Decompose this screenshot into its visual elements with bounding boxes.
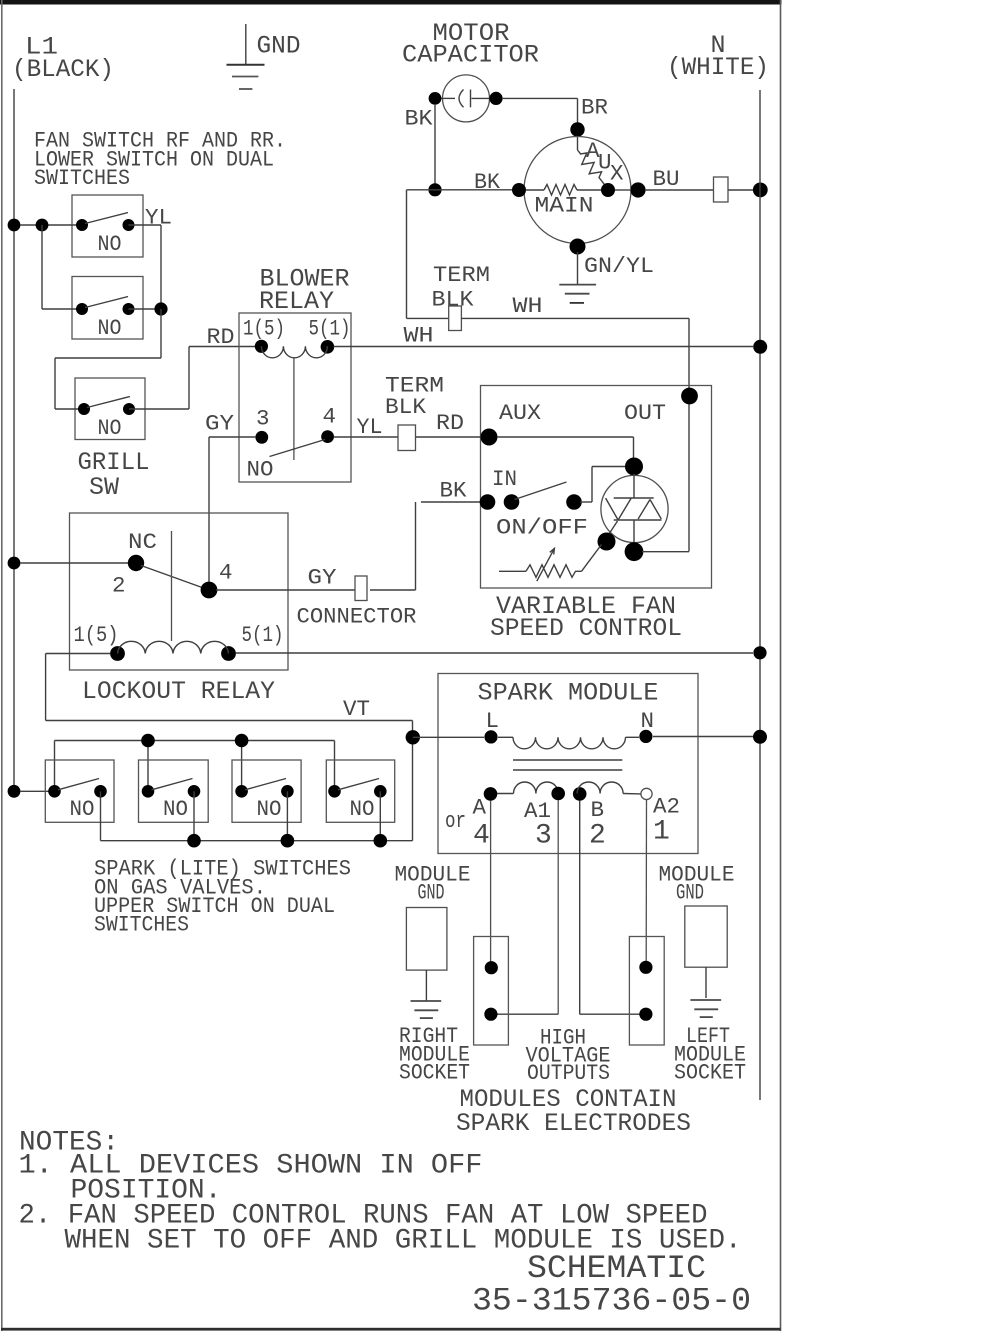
svg-text:MAIN: MAIN xyxy=(535,193,594,219)
svg-text:SWITCHES: SWITCHES xyxy=(94,912,189,938)
svg-text:NO: NO xyxy=(98,315,122,341)
svg-text:GND: GND xyxy=(676,880,704,906)
svg-text:RD: RD xyxy=(207,324,235,350)
svg-text:BK: BK xyxy=(440,478,467,504)
svg-text:2: 2 xyxy=(589,821,606,852)
svg-text:OUTPUTS: OUTPUTS xyxy=(527,1060,610,1086)
svg-text:5(1): 5(1) xyxy=(309,316,351,342)
svg-text:BR: BR xyxy=(581,95,608,121)
svg-text:SOCKET: SOCKET xyxy=(399,1060,470,1086)
svg-text:GY: GY xyxy=(308,565,338,591)
svg-text:GND: GND xyxy=(418,880,445,906)
svg-text:(BLACK): (BLACK) xyxy=(12,55,114,84)
svg-text:CONNECTOR: CONNECTOR xyxy=(297,604,417,630)
svg-text:NO: NO xyxy=(163,796,188,822)
svg-text:GY: GY xyxy=(205,411,235,437)
svg-text:B: B xyxy=(591,797,605,823)
svg-text:SPEED CONTROL: SPEED CONTROL xyxy=(490,614,682,643)
svg-text:NO: NO xyxy=(98,231,122,257)
svg-text:1: 1 xyxy=(653,817,670,848)
svg-text:X: X xyxy=(610,161,624,187)
svg-text:SCHEMATIC: SCHEMATIC xyxy=(527,1250,706,1287)
svg-text:4: 4 xyxy=(219,560,233,586)
svg-text:WH: WH xyxy=(513,293,543,319)
svg-text:1(5): 1(5) xyxy=(243,316,285,342)
svg-text:VT: VT xyxy=(343,696,370,722)
svg-text:YL: YL xyxy=(357,414,383,440)
svg-text:SPARK MODULE: SPARK MODULE xyxy=(478,679,659,708)
svg-text:35-315736-05-0: 35-315736-05-0 xyxy=(472,1283,751,1320)
svg-text:N: N xyxy=(641,708,655,734)
svg-text:2: 2 xyxy=(112,573,126,599)
svg-text:GN/YL: GN/YL xyxy=(584,253,654,279)
svg-text:RD: RD xyxy=(436,410,464,436)
svg-text:4: 4 xyxy=(473,821,490,852)
svg-text:BLK: BLK xyxy=(432,287,475,313)
svg-text:NC: NC xyxy=(128,529,157,555)
svg-text:BK: BK xyxy=(405,106,434,132)
svg-text:3: 3 xyxy=(535,821,552,852)
svg-text:4: 4 xyxy=(323,404,337,430)
svg-text:BK: BK xyxy=(474,169,500,195)
svg-text:RELAY: RELAY xyxy=(259,287,334,316)
svg-text:L: L xyxy=(486,708,500,734)
svg-text:or: or xyxy=(445,808,466,834)
svg-text:WH: WH xyxy=(404,323,434,349)
svg-text:LOCKOUT RELAY: LOCKOUT RELAY xyxy=(82,677,275,706)
svg-text:5(1): 5(1) xyxy=(242,622,284,648)
svg-text:NO: NO xyxy=(247,457,274,483)
svg-text:SOCKET: SOCKET xyxy=(674,1060,746,1086)
svg-text:OUT: OUT xyxy=(624,400,666,426)
svg-text:3: 3 xyxy=(256,406,270,432)
svg-text:BLK: BLK xyxy=(385,394,426,420)
svg-text:ON/OFF: ON/OFF xyxy=(496,515,588,541)
svg-text:SPARK ELECTRODES: SPARK ELECTRODES xyxy=(456,1109,691,1138)
svg-text:YL: YL xyxy=(145,205,172,231)
svg-text:SW: SW xyxy=(89,473,119,502)
svg-text:GND: GND xyxy=(257,32,301,61)
svg-text:NO: NO xyxy=(98,415,122,441)
svg-text:AUX: AUX xyxy=(499,400,542,426)
svg-text:1(5): 1(5) xyxy=(74,622,119,648)
svg-text:NO: NO xyxy=(350,796,375,822)
svg-text:NO: NO xyxy=(70,796,95,822)
svg-text:TERM: TERM xyxy=(433,262,490,288)
svg-text:NO: NO xyxy=(257,796,282,822)
svg-text:CAPACITOR: CAPACITOR xyxy=(402,41,539,70)
svg-text:SWITCHES: SWITCHES xyxy=(34,165,130,191)
svg-text:IN: IN xyxy=(492,466,517,492)
svg-text:(WHITE): (WHITE) xyxy=(667,53,769,82)
svg-text:A: A xyxy=(473,795,487,821)
svg-text:BU: BU xyxy=(653,166,680,192)
